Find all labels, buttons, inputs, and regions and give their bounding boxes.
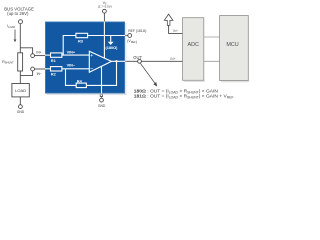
LOAD block (12, 84, 29, 97)
current label I_LOAD (7, 24, 16, 42)
wire ADC to MCU lower (204, 60, 220, 62)
node IN+ terminal (31, 54, 35, 58)
node REF terminal (128, 34, 132, 38)
svg-text:181Ω : OUT = (ILOAD × RSHUNT): 181Ω : OUT = (ILOAD × RSHUNT) × GAIN + V… (134, 93, 234, 99)
wire ADC to MCU upper (204, 36, 220, 38)
resistor R2 (51, 67, 62, 77)
wire shunt to load (19, 71, 21, 84)
wire IN- into device (35, 68, 46, 70)
svg-text:OUT: OUT (133, 55, 142, 60)
ground terminal center (100, 98, 104, 102)
op-amp U1 (89, 51, 111, 72)
wire OUT stub outside (125, 60, 138, 62)
wire pin to R2 (45, 68, 51, 70)
wire OUT to ADC (141, 60, 182, 62)
wire load to gnd (19, 97, 21, 105)
svg-text:R3: R3 (78, 39, 84, 44)
svg-text:(2.7–5.5V): (2.7–5.5V) (98, 5, 112, 9)
svg-text:GND: GND (98, 104, 106, 108)
wire feedback down (86, 61, 116, 85)
svg-text:+: + (90, 53, 93, 58)
svg-text:GND: GND (17, 110, 25, 114)
shadow under IC (47, 94, 127, 96)
wire gnd stub outside (101, 94, 103, 98)
wire VS internal to op-amp (103, 22, 105, 59)
svg-text:(180Ω): (180Ω) (106, 46, 119, 50)
svg-text:VIN+: VIN+ (67, 51, 76, 55)
svg-text:VIN−: VIN− (67, 64, 76, 68)
IC body (current-sense amplifier) (45, 22, 125, 94)
supply VS terminal (103, 9, 107, 13)
svg-text:IN−: IN− (173, 29, 178, 33)
ground terminal left (19, 105, 23, 109)
wire VIN- (62, 68, 89, 70)
shadow under MCU (221, 81, 250, 82)
resistor R3 (76, 33, 88, 43)
wire branch to IN+ (20, 48, 32, 54)
wire op-amp output (112, 60, 126, 62)
wire pin to R1 (45, 54, 51, 56)
svg-text:R1: R1 (51, 58, 57, 63)
svg-text:(up to 26V): (up to 26V) (7, 11, 29, 16)
resistor RSHUNT (2, 53, 23, 71)
node IN- terminal (31, 67, 35, 71)
svg-text:−: − (90, 66, 93, 71)
ADC block (183, 18, 204, 81)
bus voltage terminal (19, 20, 23, 24)
wire REF stub outside (125, 35, 128, 37)
wire R3 to REF pin (88, 35, 125, 37)
svg-text:IN+: IN+ (36, 51, 41, 55)
svg-text:ADC: ADC (188, 42, 199, 48)
svg-text:MCU: MCU (226, 42, 238, 48)
arrow to equations (140, 63, 157, 86)
svg-text:R2: R2 (51, 72, 57, 77)
resistor R1 (51, 53, 62, 63)
svg-text:LOAD: LOAD (15, 88, 26, 93)
wire stub to internal ground (110, 36, 112, 42)
wire op-amp to GND pin (101, 66, 103, 93)
svg-text:REF (181Ω): REF (181Ω) (128, 29, 146, 33)
wire branch to IN- (20, 71, 32, 76)
node OUT terminal (138, 59, 142, 63)
node BUS VOLTAGE label (4, 7, 34, 16)
wire arrow to ADC IN- (169, 25, 183, 33)
supply arrow symbol (164, 14, 173, 25)
svg-text:IN−: IN− (37, 72, 42, 76)
wire R4 to VIN- node (66, 69, 77, 86)
supply VS label (98, 1, 112, 9)
svg-text:R4: R4 (77, 78, 83, 83)
ground symbol internal (180) (106, 42, 119, 50)
MCU block (220, 16, 249, 81)
wire VIN+ (62, 54, 89, 56)
wire bus to shunt (19, 24, 21, 53)
gnd pin marker (100, 94, 102, 96)
shadow under ADC (184, 81, 205, 82)
wire VIN+ node up to R3 (63, 36, 76, 56)
wire VS into device (103, 13, 105, 21)
resistor R4 (76, 78, 86, 87)
wire IN+ into device (35, 55, 46, 57)
node feedback junction (115, 60, 117, 62)
svg-text:IN+: IN+ (170, 57, 175, 61)
